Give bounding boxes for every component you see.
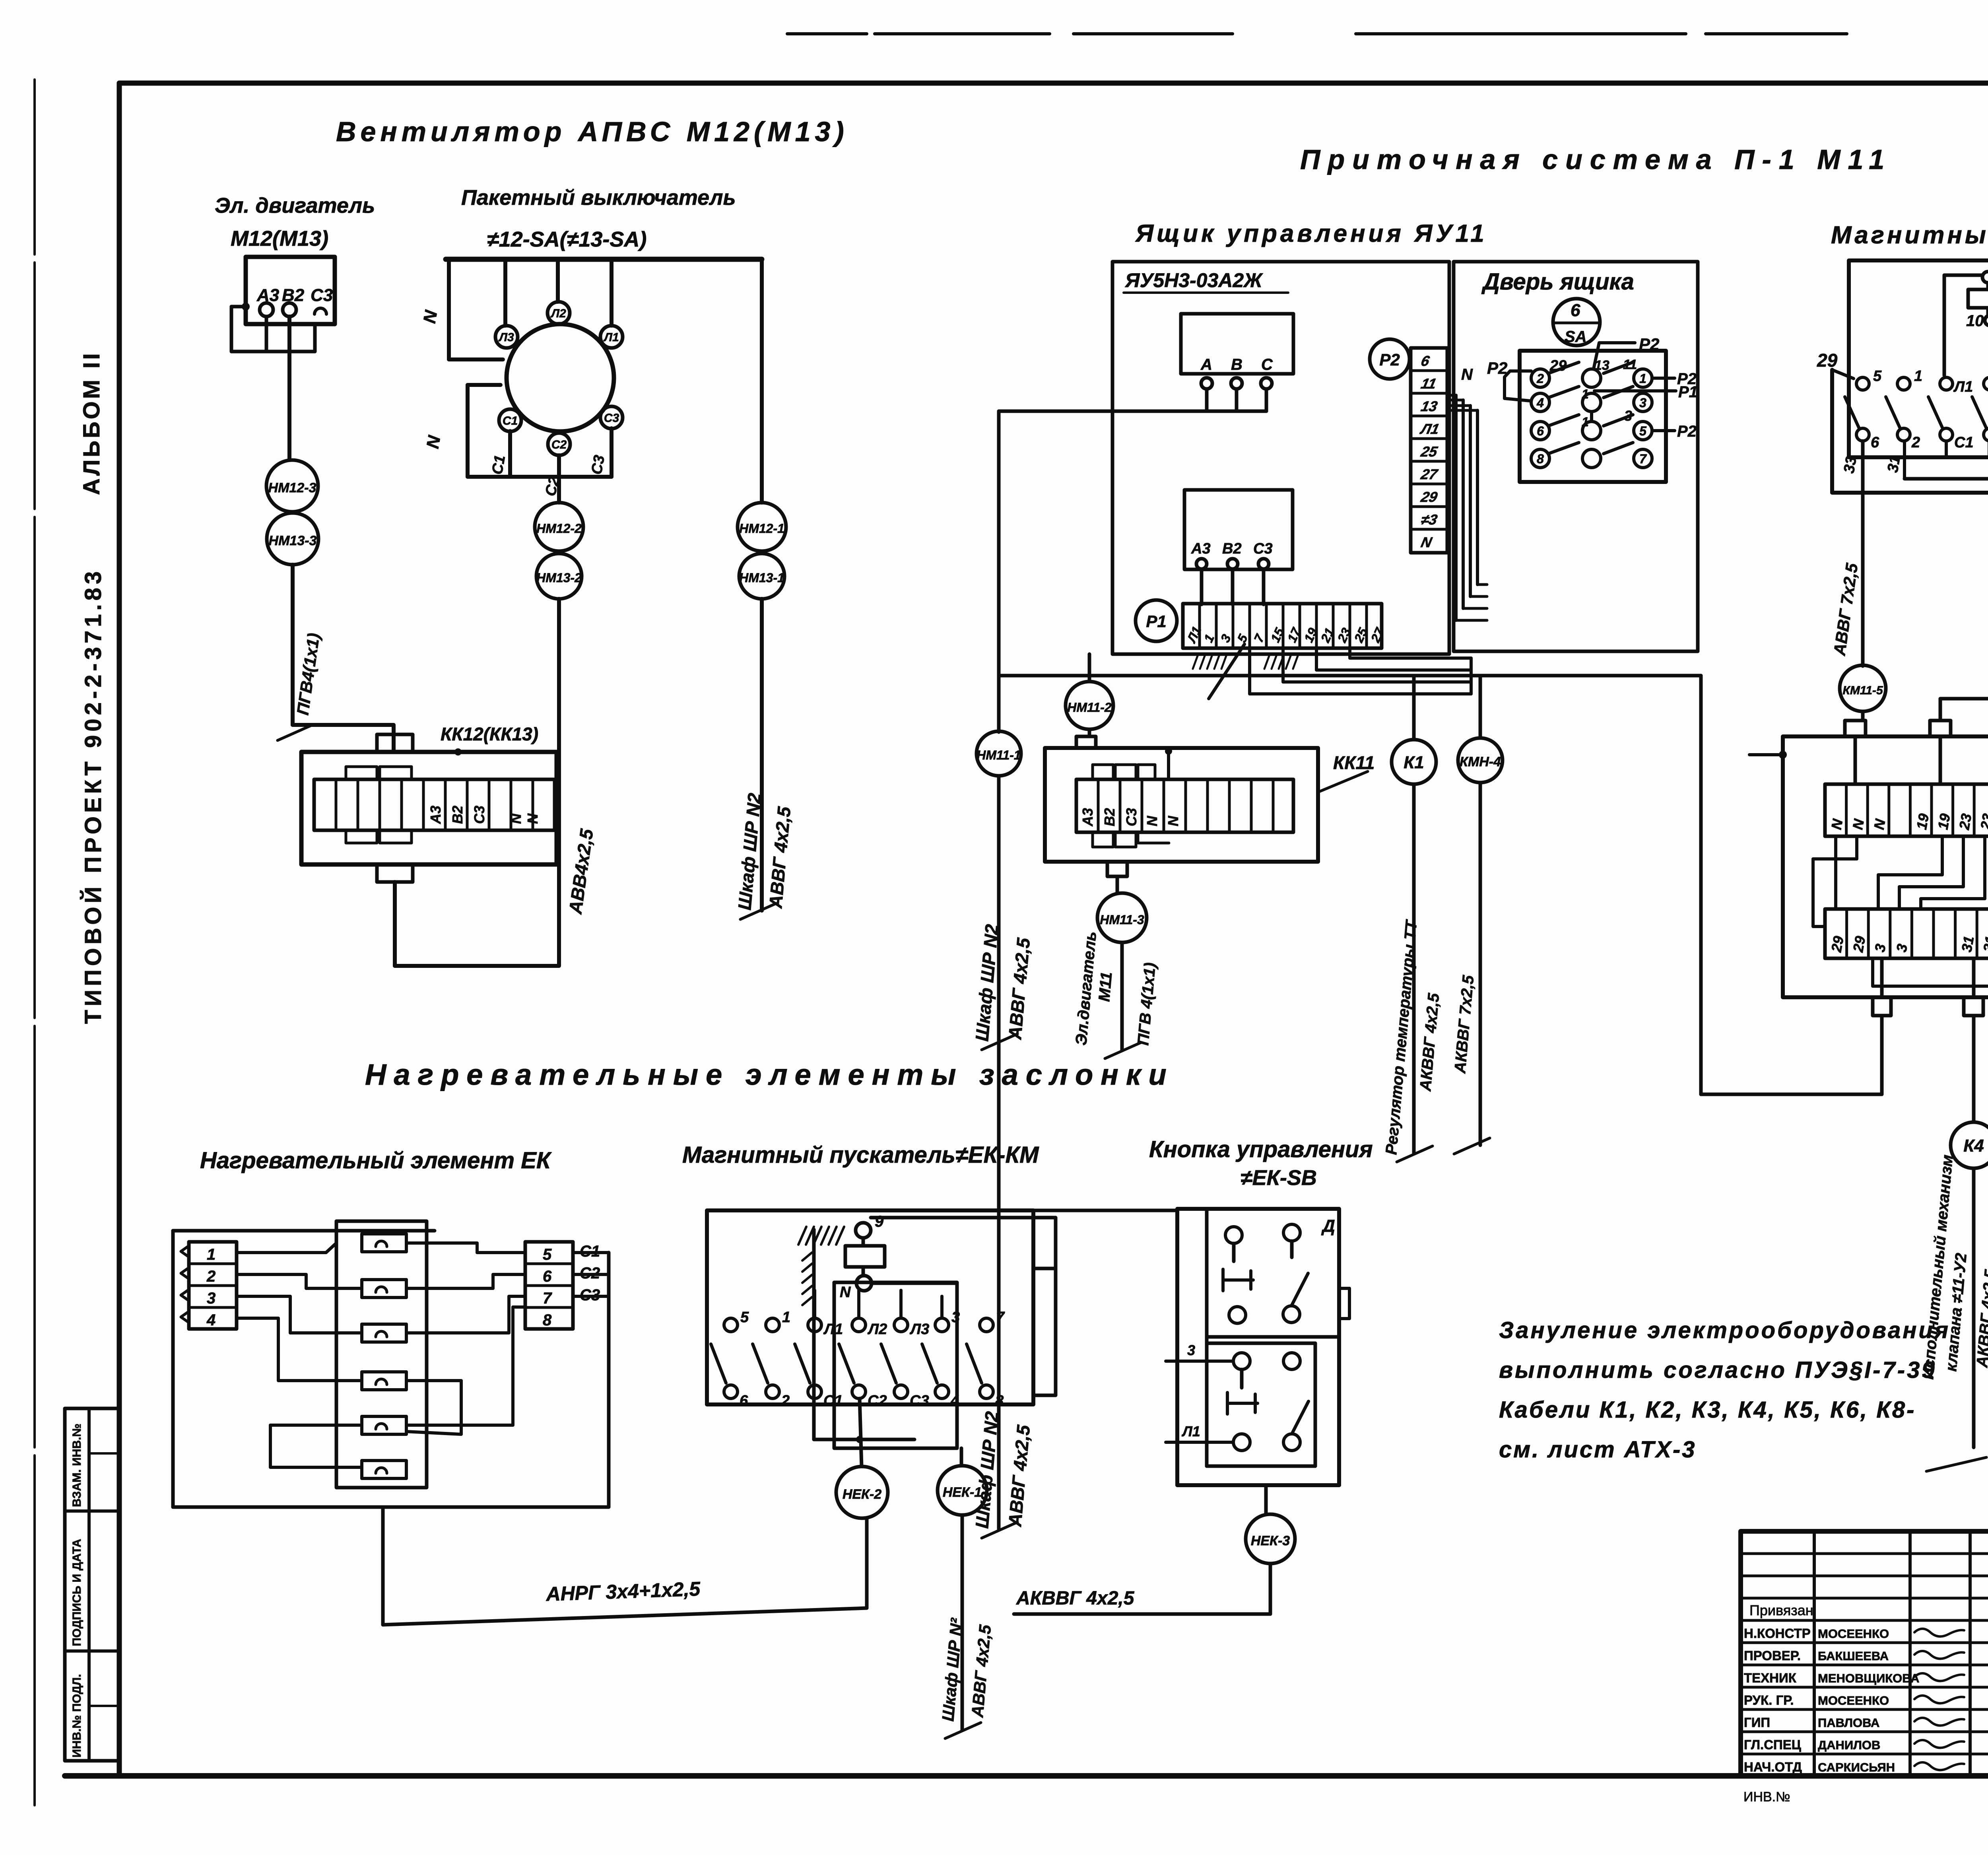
svg-text:Д: Д <box>1321 1216 1335 1236</box>
svg-text:2: 2 <box>1911 434 1920 451</box>
svg-text:А3: А3 <box>1191 540 1211 557</box>
svg-text:Нагревательный элемент ЕК: Нагревательный элемент ЕК <box>200 1148 552 1173</box>
svg-text:2: 2 <box>1536 371 1544 386</box>
svg-text:НМ11-3: НМ11-3 <box>1100 913 1144 927</box>
svg-text:Приточная система П-1 М11: Приточная система П-1 М11 <box>1300 144 1892 175</box>
svg-text:НЕК-3: НЕК-3 <box>1251 1533 1290 1548</box>
svg-text:1: 1 <box>207 1246 215 1263</box>
svg-text:3: 3 <box>1639 396 1646 410</box>
svg-text:МОСЕЕНКО: МОСЕЕНКО <box>1818 1627 1889 1641</box>
svg-text:N: N <box>1144 816 1160 826</box>
svg-text:29: 29 <box>1828 935 1847 954</box>
svg-text:Л1: Л1 <box>1953 379 1973 395</box>
svg-text:8: 8 <box>543 1311 552 1329</box>
svg-text:≠ЕК-SВ: ≠ЕК-SВ <box>1241 1166 1317 1190</box>
svg-text:С1: С1 <box>1954 434 1974 451</box>
svg-text:8: 8 <box>1537 452 1544 466</box>
svg-text:6: 6 <box>1571 301 1580 320</box>
svg-text:С3: С3 <box>604 412 619 425</box>
svg-text:7: 7 <box>996 1309 1005 1326</box>
svg-text:23: 23 <box>1956 812 1975 831</box>
svg-text:В2: В2 <box>282 286 305 305</box>
svg-text:31: 31 <box>1885 455 1904 474</box>
svg-text:В: В <box>1231 356 1242 373</box>
svg-text:5: 5 <box>1873 368 1882 385</box>
svg-text:10: 10 <box>1966 312 1984 330</box>
svg-text:НМ13-2: НМ13-2 <box>536 571 582 585</box>
svg-text:Пакетный выключатель: Пакетный выключатель <box>461 186 736 210</box>
svg-text:Магнитный пускатель≠11-К: Магнитный пускатель≠11-К <box>1831 221 1988 249</box>
svg-text:С3: С3 <box>1253 540 1273 557</box>
svg-text:ПОДПИСЬ И ДАТА: ПОДПИСЬ И ДАТА <box>70 1539 83 1646</box>
svg-text:Р1: Р1 <box>1146 612 1166 631</box>
svg-text:С3: С3 <box>588 454 608 476</box>
svg-text:Р1: Р1 <box>1678 383 1698 401</box>
svg-text:ВЗАМ. ИНВ.№: ВЗАМ. ИНВ.№ <box>70 1424 83 1507</box>
svg-text:С3: С3 <box>471 806 487 824</box>
svg-text:Л3: Л3 <box>498 331 514 344</box>
svg-text:КК12(КК13): КК12(КК13) <box>441 724 538 744</box>
svg-text:Нагревательные элементы зас: Нагревательные элементы заслонки <box>365 1058 1174 1091</box>
svg-text:19: 19 <box>1913 812 1932 831</box>
svg-text:ТЕХНИК: ТЕХНИК <box>1744 1670 1797 1685</box>
svg-text:N: N <box>1165 816 1181 826</box>
svg-text:5: 5 <box>543 1246 552 1263</box>
svg-text:ПРОВЕР.: ПРОВЕР. <box>1744 1648 1801 1663</box>
svg-text:33: 33 <box>1841 455 1860 475</box>
svg-text:1: 1 <box>1582 415 1589 429</box>
svg-text:А3: А3 <box>1079 808 1096 827</box>
svg-text:С: С <box>1261 356 1273 373</box>
svg-text:С2: С2 <box>868 1393 887 1409</box>
svg-text:N: N <box>1461 366 1473 383</box>
svg-text:С3: С3 <box>311 286 333 305</box>
svg-text:МОСЕЕНКО: МОСЕЕНКО <box>1818 1694 1889 1707</box>
svg-text:ГЛ.СПЕЦ: ГЛ.СПЕЦ <box>1744 1737 1801 1752</box>
svg-text:4: 4 <box>1536 396 1544 410</box>
svg-text:N: N <box>508 813 524 824</box>
svg-text:2: 2 <box>781 1393 790 1409</box>
svg-text:2: 2 <box>206 1268 215 1285</box>
svg-text:Л3: Л3 <box>909 1321 929 1338</box>
svg-text:АЛЬБОМ II: АЛЬБОМ II <box>79 351 105 495</box>
svg-text:Привязан: Привязан <box>1749 1602 1813 1618</box>
svg-text:19: 19 <box>1935 812 1953 831</box>
svg-text:НМ11-2: НМ11-2 <box>1067 700 1112 715</box>
svg-text:1: 1 <box>1914 368 1922 385</box>
svg-text:НМ12-2: НМ12-2 <box>536 521 582 536</box>
svg-text:7: 7 <box>543 1290 552 1307</box>
svg-text:НМ12-3: НМ12-3 <box>268 480 316 495</box>
svg-text:SA: SA <box>1565 328 1587 346</box>
svg-text:НЕК-1: НЕК-1 <box>943 1485 982 1500</box>
svg-text:Н.КОНСТР: Н.КОНСТР <box>1744 1626 1811 1641</box>
svg-text:31: 31 <box>1958 935 1977 954</box>
svg-text:НМ13-1: НМ13-1 <box>739 571 784 585</box>
svg-text:29: 29 <box>1549 357 1567 374</box>
svg-text:Дверь ящика: Дверь ящика <box>1481 269 1634 295</box>
svg-text:выполнить согласно ПУЭ§I-7-39: выполнить согласно ПУЭ§I-7-39 <box>1499 1357 1937 1383</box>
svg-text:ИНВ.№ ПОДЛ.: ИНВ.№ ПОДЛ. <box>70 1674 83 1758</box>
svg-text:Магнитный пускатель≠ЕК-КМ: Магнитный пускатель≠ЕК-КМ <box>682 1142 1039 1168</box>
svg-text:7: 7 <box>1639 452 1647 466</box>
svg-text:КМН-4: КМН-4 <box>1460 754 1501 769</box>
svg-text:3: 3 <box>1187 1342 1195 1358</box>
svg-text:ЯУ5Н3-03А2Ж: ЯУ5Н3-03А2Ж <box>1124 269 1263 291</box>
svg-text:К1: К1 <box>1404 753 1424 772</box>
svg-text:1: 1 <box>782 1309 790 1326</box>
svg-text:4: 4 <box>206 1311 215 1329</box>
svg-text:≠12-SA(≠13-SA): ≠12-SA(≠13-SA) <box>487 227 646 251</box>
svg-text:А: А <box>1200 356 1212 373</box>
svg-text:Кнопка управления: Кнопка управления <box>1149 1136 1373 1162</box>
svg-text:Р2: Р2 <box>1487 359 1507 377</box>
svg-text:С1: С1 <box>489 454 509 476</box>
svg-text:В2: В2 <box>1101 808 1118 826</box>
svg-text:Л2: Л2 <box>867 1321 887 1338</box>
svg-text:МЕНОВЩИКОВА: МЕНОВЩИКОВА <box>1818 1671 1920 1685</box>
svg-text:29: 29 <box>1817 350 1838 371</box>
svg-text:ПАВЛОВА: ПАВЛОВА <box>1818 1716 1879 1730</box>
svg-text:ИНВ.№: ИНВ.№ <box>1743 1789 1790 1804</box>
svg-text:С2: С2 <box>551 438 567 451</box>
svg-text:Эл. двигатель: Эл. двигатель <box>215 194 375 218</box>
svg-text:6: 6 <box>740 1393 748 1409</box>
svg-text:3: 3 <box>207 1290 215 1307</box>
svg-text:5: 5 <box>1639 424 1647 438</box>
svg-text:ДАНИЛОВ: ДАНИЛОВ <box>1818 1738 1880 1752</box>
svg-text:6: 6 <box>1537 424 1544 438</box>
svg-text:М12(М13): М12(М13) <box>231 227 328 251</box>
svg-text:Л2: Л2 <box>550 307 566 320</box>
svg-text:К4: К4 <box>1963 1136 1984 1156</box>
svg-text:В2: В2 <box>449 806 466 824</box>
svg-text:М11: М11 <box>1095 971 1115 1002</box>
svg-text:С3: С3 <box>1123 808 1140 826</box>
svg-text:НАЧ.ОТД: НАЧ.ОТД <box>1744 1760 1802 1774</box>
svg-text:В2: В2 <box>1222 540 1242 557</box>
svg-text:1: 1 <box>1639 371 1646 386</box>
svg-text:С1: С1 <box>503 414 518 427</box>
svg-text:НМ11-1: НМ11-1 <box>977 748 1021 762</box>
svg-text:8: 8 <box>995 1393 1004 1409</box>
svg-text:N: N <box>524 813 541 824</box>
svg-text:Ящик управления ЯУ11: Ящик управления ЯУ11 <box>1135 220 1487 247</box>
svg-text:Р2: Р2 <box>1379 350 1400 369</box>
svg-text:КК11: КК11 <box>1333 752 1375 773</box>
svg-text:6: 6 <box>543 1268 552 1285</box>
svg-text:11: 11 <box>1623 357 1637 372</box>
svg-text:Л1: Л1 <box>1181 1423 1200 1439</box>
svg-text:РУК. ГР.: РУК. ГР. <box>1744 1693 1794 1707</box>
svg-text:Вентилятор АПВС М12(М13): Вентилятор АПВС М12(М13) <box>336 116 848 147</box>
svg-text:САРКИСЬЯН: САРКИСЬЯН <box>1818 1760 1895 1774</box>
svg-text:Л1: Л1 <box>603 331 619 344</box>
svg-text:НМ12-1: НМ12-1 <box>739 521 784 536</box>
svg-text:Кабели К1, К2, К3, К4, К5, К6: Кабели К1, К2, К3, К4, К5, К6, К8- <box>1499 1397 1916 1423</box>
svg-text:5: 5 <box>740 1309 749 1326</box>
svg-text:КМ11-5: КМ11-5 <box>1842 684 1883 697</box>
svg-text:Р2: Р2 <box>1677 423 1697 440</box>
svg-text:Р2: Р2 <box>1639 335 1659 354</box>
svg-text:6: 6 <box>1871 434 1879 451</box>
svg-text:А3: А3 <box>427 806 444 824</box>
svg-text:НМ13-3: НМ13-3 <box>269 533 317 548</box>
svg-text:29: 29 <box>1850 935 1869 954</box>
svg-text:ТИПОВОЙ ПРОЕКТ 902-2-371.83: ТИПОВОЙ ПРОЕКТ 902-2-371.83 <box>80 568 106 1024</box>
svg-text:АКВВГ 4х2,5: АКВВГ 4х2,5 <box>1016 1588 1135 1609</box>
svg-text:N: N <box>840 1284 851 1301</box>
svg-text:ГИП: ГИП <box>1744 1715 1770 1730</box>
svg-text:см. лист АТХ-3: см. лист АТХ-3 <box>1499 1437 1697 1463</box>
svg-text:Зануление электрооборудования: Зануление электрооборудования <box>1499 1317 1950 1343</box>
svg-text:НЕК-2: НЕК-2 <box>843 1487 881 1502</box>
svg-text:3: 3 <box>1624 408 1632 424</box>
svg-text:9: 9 <box>875 1213 884 1230</box>
svg-text:1: 1 <box>1582 387 1589 401</box>
svg-text:С3: С3 <box>910 1393 929 1409</box>
svg-text:БАКШЕЕВА: БАКШЕЕВА <box>1818 1649 1889 1663</box>
